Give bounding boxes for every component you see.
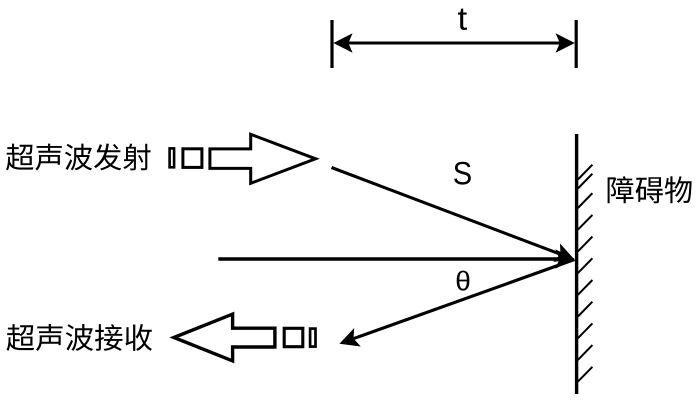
wire double-headed time dimension line [346, 42, 562, 45]
wire hatch 2 on obstacle wall [578, 174, 593, 189]
wire hatch 4 on obstacle wall [578, 215, 593, 230]
label 障碍物 (obstacle) [608, 176, 692, 203]
wire reflected ray [352, 260, 575, 340]
node left arrowhead of time line [333, 33, 352, 53]
wire hatch 5 on obstacle wall [578, 237, 593, 252]
wire hatch 9 on obstacle wall [578, 323, 593, 338]
label 超声波接收 (ultrasonic receive) [7, 324, 153, 351]
wire horizontal center line [218, 257, 562, 260]
node small square of transmitter symbol [183, 149, 202, 168]
node transmit block arrow [210, 134, 316, 183]
node right arrowhead of time line [556, 33, 575, 53]
label S (path length) [454, 162, 471, 185]
node arrowhead of reflected ray (lower left) [339, 328, 360, 347]
node small bar of receiver symbol [310, 329, 315, 347]
node arrowhead of horizontal line at wall [555, 249, 574, 269]
node receive block arrow [174, 314, 275, 361]
wire S incident ray [332, 168, 563, 255]
label t (time of flight) [458, 9, 467, 30]
wire hatch 10 on obstacle wall [578, 345, 593, 360]
wire hatch 3 on obstacle wall [578, 193, 593, 208]
wire hatch 11 on obstacle wall [578, 367, 593, 382]
node small square of receiver symbol [284, 328, 303, 346]
node arrowhead of S ray at wall [553, 244, 574, 262]
node right tick of time dimension [575, 20, 578, 68]
node small bar of transmitter symbol [170, 148, 175, 167]
wire hatch 7 on obstacle wall [578, 280, 593, 295]
wire obstacle wall line [575, 134, 578, 394]
wire hatch 6 on obstacle wall [578, 258, 593, 273]
label θ (reflection angle) [457, 271, 470, 291]
label 超声波发射 (ultrasonic transmit) [6, 144, 151, 171]
wire hatch 8 on obstacle wall [578, 302, 593, 317]
wire hatch 1 on obstacle wall [578, 165, 593, 180]
node left tick of time dimension [330, 20, 333, 68]
